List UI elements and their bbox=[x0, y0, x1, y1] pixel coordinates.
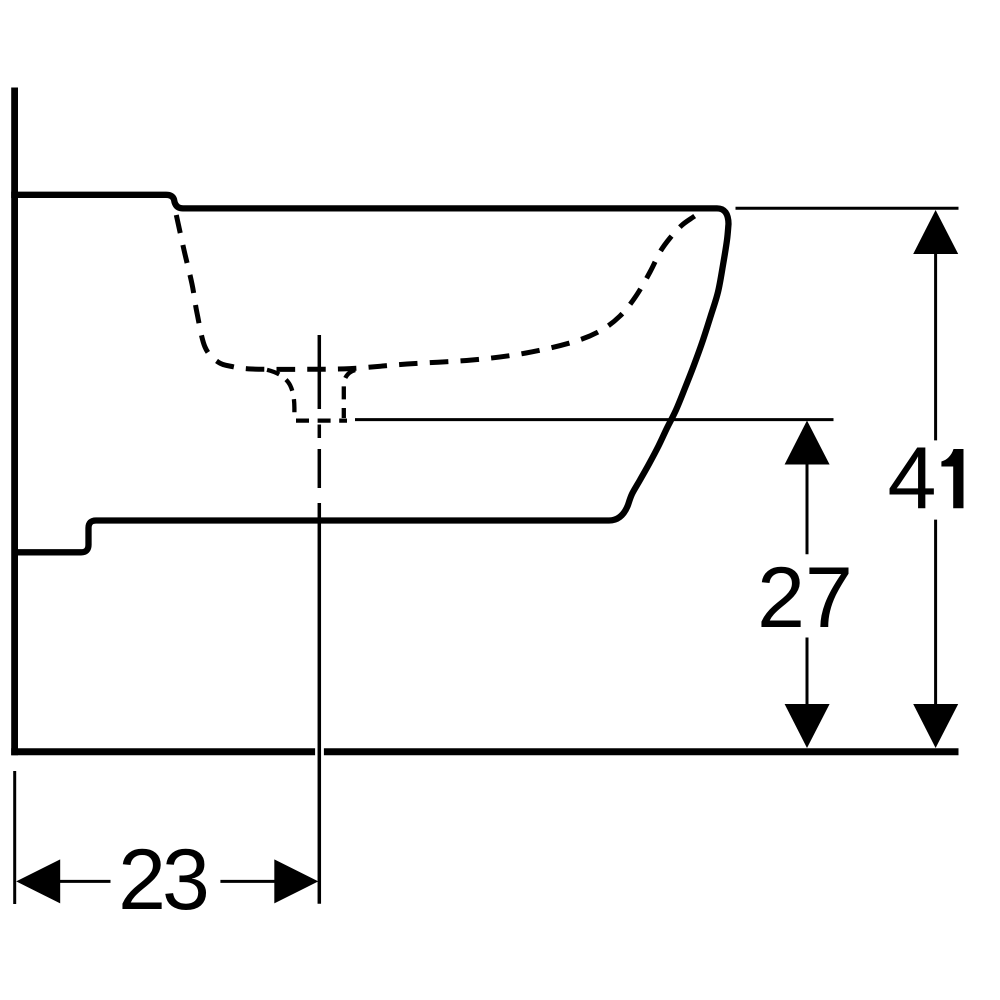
wall bbox=[11, 88, 18, 756]
dimension 41 arrow down bbox=[913, 704, 958, 748]
drain dashed bottom bbox=[296, 418, 347, 422]
dimension 41 arrow up bbox=[913, 210, 958, 254]
dimension 23 arrow right bbox=[274, 859, 318, 903]
dimension 23 arrow left bbox=[16, 859, 60, 903]
dimension 23 shaft left bbox=[58, 880, 110, 883]
svg-text:27: 27 bbox=[757, 550, 853, 646]
svg-text:4: 4 bbox=[888, 429, 937, 528]
extension line bottom left (wall level) bbox=[13, 771, 16, 904]
dimension 23 shaft right bbox=[220, 880, 276, 883]
dimension 27 shaft upper bbox=[806, 463, 809, 555]
dimension 41 label digit 1 bbox=[941, 449, 963, 508]
extension line top right (rim level) bbox=[736, 207, 959, 210]
dimension 27 arrow down bbox=[785, 704, 830, 748]
inner bowl dashed line bbox=[176, 210, 705, 369]
drain dashed outline right bbox=[344, 369, 363, 418]
dimension 27 arrow up bbox=[785, 421, 830, 465]
extension line for 27 (drain level) bbox=[355, 418, 834, 421]
floor line right segment bbox=[324, 748, 959, 755]
bidet profile outline bbox=[11, 195, 728, 553]
dimension 41 shaft upper bbox=[934, 252, 937, 440]
dimension 27 shaft lower bbox=[806, 638, 809, 707]
dimension 41 shaft lower bbox=[934, 520, 937, 706]
center line of drain bbox=[318, 335, 322, 409]
drain dashed outline left bbox=[267, 370, 294, 416]
floor line left segment bbox=[11, 748, 315, 755]
svg-text:23: 23 bbox=[118, 832, 207, 928]
